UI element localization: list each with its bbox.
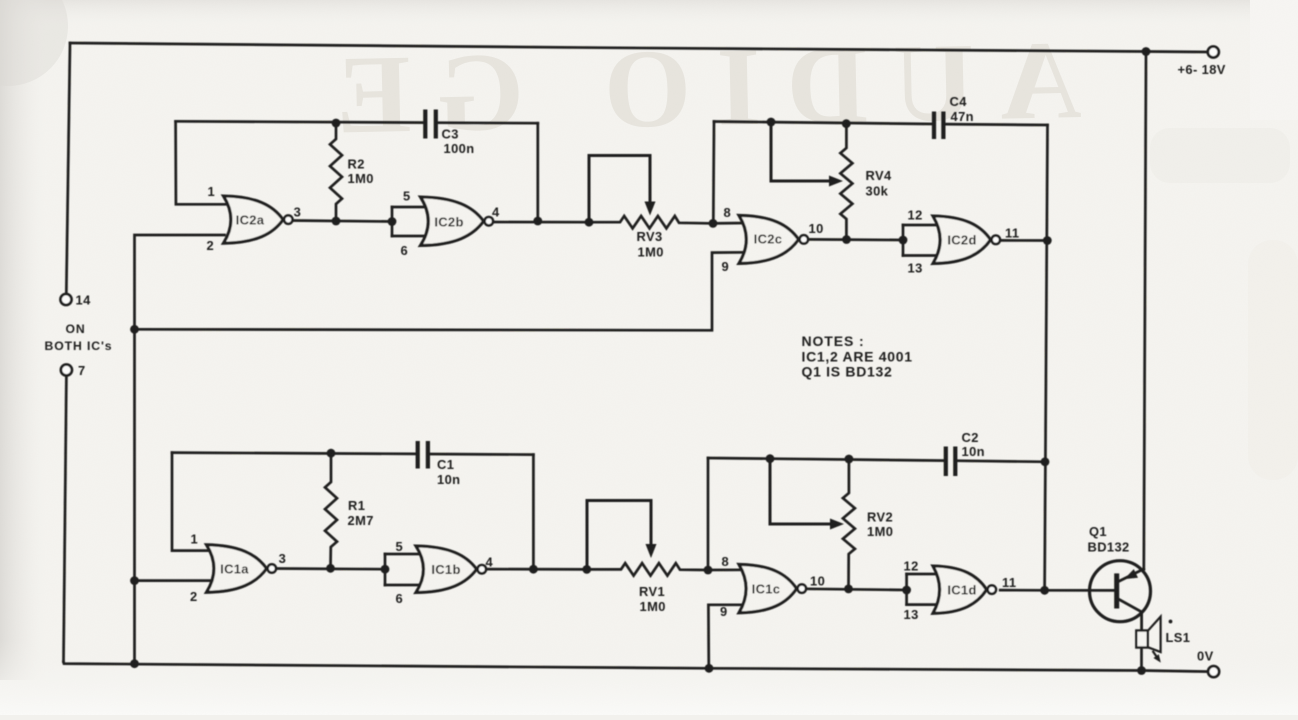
svg-text:RV3: RV3 [637,229,663,244]
svg-text:4: 4 [492,205,500,220]
svg-text:IC1,2 ARE 4001: IC1,2 ARE 4001 [802,348,913,364]
svg-text:4: 4 [486,555,494,570]
svg-text:100n: 100n [444,141,475,156]
svg-text:IC1b: IC1b [431,562,460,577]
svg-text:47n: 47n [951,109,974,124]
svg-text:13: 13 [904,607,919,622]
svg-text:IC1d: IC1d [947,583,976,598]
svg-text:+6- 18V: +6- 18V [1178,62,1226,77]
svg-text:8: 8 [722,554,730,569]
svg-text:11: 11 [1005,226,1019,241]
svg-text:10: 10 [809,221,824,236]
svg-text:R1: R1 [348,498,365,513]
svg-text:R2: R2 [348,157,365,172]
svg-text:IC2d: IC2d [947,233,976,248]
svg-text:14: 14 [76,292,92,307]
svg-text:C2: C2 [962,430,979,445]
svg-text:6: 6 [401,243,409,258]
svg-text:RV1: RV1 [639,584,665,599]
svg-text:1: 1 [208,184,216,199]
svg-text:1M0: 1M0 [638,244,664,259]
svg-text:Q1: Q1 [1089,524,1107,539]
svg-text:7: 7 [78,363,86,378]
svg-text:1M0: 1M0 [867,524,893,539]
svg-text:1M0: 1M0 [640,599,666,614]
svg-text:12: 12 [908,208,923,223]
svg-text:BOTH IC's: BOTH IC's [45,339,113,353]
svg-text:2: 2 [207,238,215,253]
svg-text:3: 3 [294,205,302,220]
svg-text:IC1a: IC1a [220,561,249,576]
svg-text:C1: C1 [437,457,454,472]
svg-text:8: 8 [724,205,732,220]
svg-text:2M7: 2M7 [348,513,374,528]
svg-text:1: 1 [191,532,199,547]
svg-text:3: 3 [279,551,287,566]
svg-text:10: 10 [810,574,825,589]
svg-text:5: 5 [396,539,404,554]
svg-text:30k: 30k [866,184,889,199]
svg-text:RV4: RV4 [866,168,892,183]
svg-text:5: 5 [403,189,411,204]
svg-text:IC1c: IC1c [752,582,781,597]
svg-text:C3: C3 [442,126,459,141]
svg-text:C4: C4 [950,94,968,109]
svg-text:9: 9 [722,259,730,274]
svg-text:11: 11 [1002,575,1016,590]
svg-text:IC2a: IC2a [236,213,265,228]
svg-text:Q1 IS BD132: Q1 IS BD132 [802,363,893,379]
svg-text:2: 2 [190,589,198,604]
svg-text:1M0: 1M0 [348,171,374,186]
svg-text:10n: 10n [437,472,460,487]
svg-text:LS1: LS1 [1166,630,1191,645]
svg-text:6: 6 [396,591,404,606]
svg-text:0V: 0V [1197,649,1214,664]
svg-text:12: 12 [904,559,919,574]
svg-text:IC2b: IC2b [434,215,463,230]
svg-text:IC2c: IC2c [754,232,783,247]
svg-text:13: 13 [908,261,923,276]
svg-text:9: 9 [720,604,728,619]
svg-text:RV2: RV2 [867,510,893,525]
svg-text:NOTES :: NOTES : [802,333,865,349]
svg-text:ON: ON [65,322,85,336]
svg-text:BD132: BD132 [1088,540,1130,555]
svg-text:10n: 10n [962,444,985,459]
